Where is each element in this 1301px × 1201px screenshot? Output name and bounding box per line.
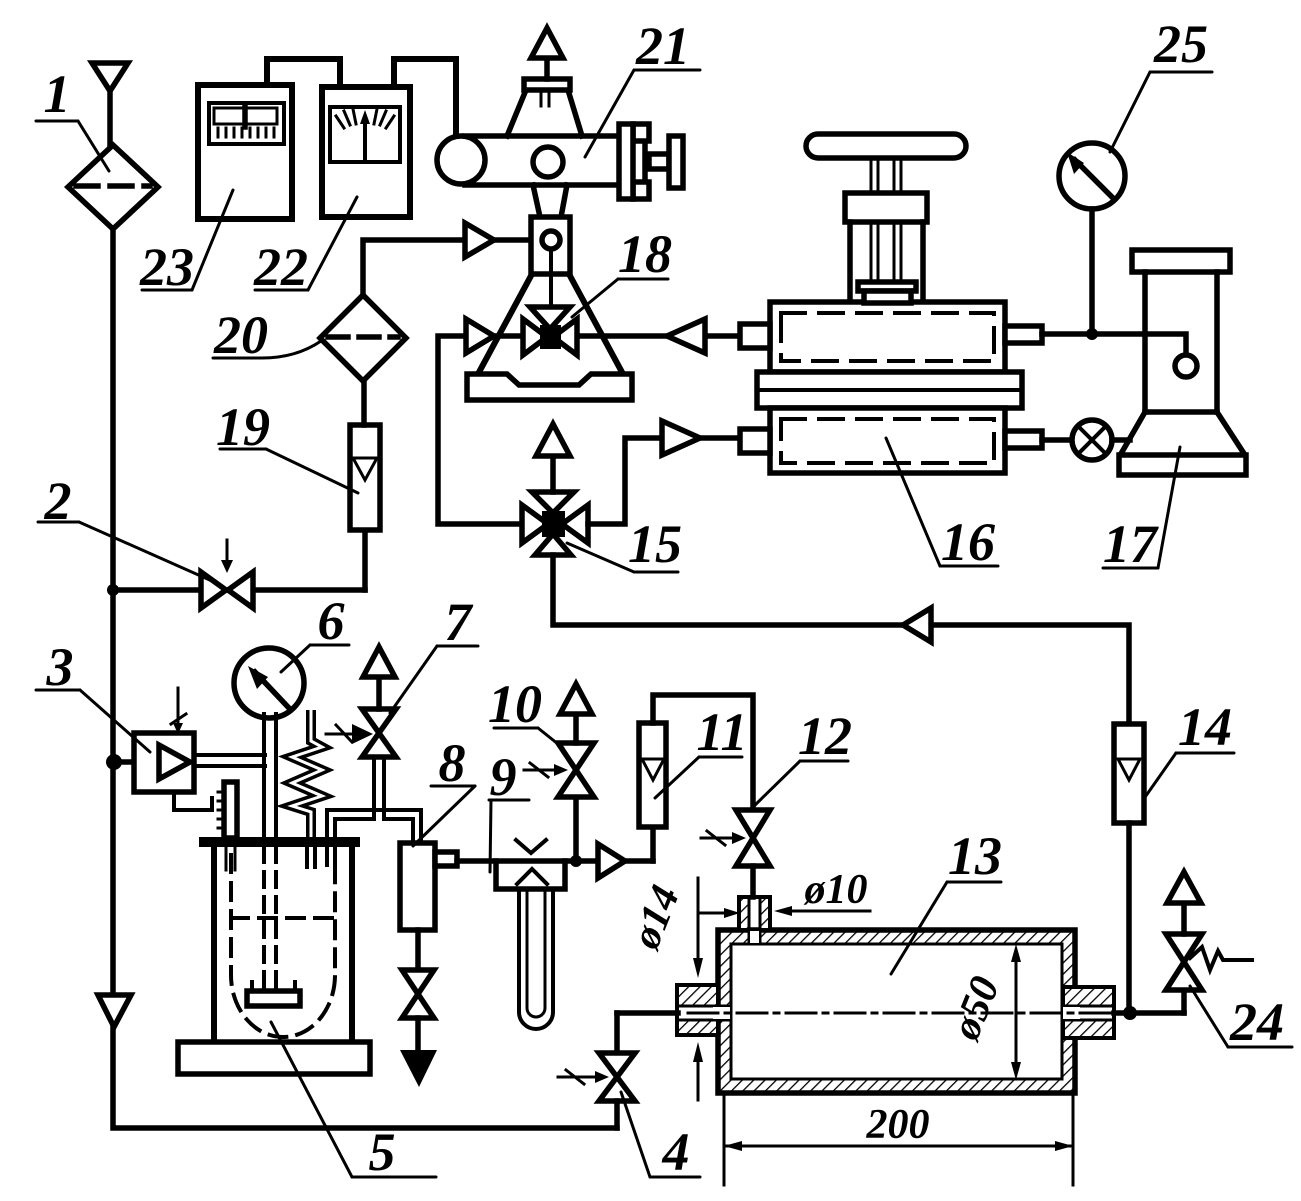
svg-text:21: 21	[635, 16, 690, 76]
wire rotameter19 to filter 20	[361, 381, 367, 425]
left boss	[677, 985, 718, 1006]
node junction at axis	[1123, 1006, 1137, 1020]
wire box22 to device 21	[394, 59, 456, 140]
port stub lower-right of 16	[1005, 431, 1042, 448]
wire valve12 to cylinder stub	[750, 866, 756, 897]
node junction gauge line	[1086, 328, 1098, 340]
svg-text:4: 4	[662, 1122, 690, 1182]
svg-text:17: 17	[1103, 514, 1159, 574]
drain arrow black	[400, 1050, 437, 1087]
instrument box 23	[198, 85, 292, 219]
pressure gauge 25	[1059, 143, 1125, 209]
vessel 5 walls	[211, 847, 217, 1042]
svg-text:9: 9	[490, 747, 517, 807]
device 21 right leg	[569, 274, 623, 374]
node main-valve2 junction	[107, 584, 119, 596]
dim phi14 arrows	[697, 878, 700, 962]
wire pivot to valve 18	[549, 249, 553, 307]
flow arrow right after thermowell	[598, 844, 625, 878]
device 21 left ball	[437, 136, 485, 184]
stirrer paddle	[247, 991, 300, 1006]
filter 1 (diamond)	[68, 145, 158, 229]
svg-text:24: 24	[1229, 992, 1284, 1052]
valve 10	[573, 797, 579, 861]
spring of valve 24	[1190, 947, 1252, 970]
valve 4	[614, 1013, 620, 1053]
svg-text:23: 23	[139, 237, 194, 297]
pressure gauge 6	[234, 648, 304, 718]
device 21 center circle	[533, 147, 563, 177]
thermostat 16 lower box	[770, 408, 1005, 473]
port stub upper-right of 16	[1005, 326, 1042, 343]
valve 7	[362, 709, 396, 733]
wire lower-right port of 16 to valve	[1042, 437, 1072, 443]
drain valve under 8	[415, 930, 421, 970]
vent stem + triangle above device 21	[544, 58, 550, 79]
bracket under box 3	[174, 792, 212, 810]
wire valve15 bottom long line to rotameter 14	[553, 555, 1129, 724]
svg-text:14: 14	[1178, 697, 1232, 757]
wire valve2 to rotameter 19	[362, 530, 368, 590]
stirrer shaft dashed	[262, 847, 266, 991]
device 21 cone	[507, 90, 526, 136]
svg-text:13: 13	[948, 826, 1002, 886]
thermowell 9 U-tube	[519, 889, 553, 1029]
svg-text:22: 22	[253, 237, 308, 297]
vent above valve 24	[1181, 903, 1187, 934]
inlet funnel	[92, 63, 128, 91]
relief valve 24	[1181, 990, 1187, 1013]
wire left boss to valve 4	[617, 1010, 678, 1016]
instrument box 22	[322, 87, 410, 217]
valve 2	[201, 572, 226, 608]
cylinder 13 right wall	[1062, 944, 1075, 1006]
device 17 sight circle	[1175, 355, 1197, 377]
svg-text:7: 7	[445, 592, 474, 652]
svg-text:18: 18	[618, 224, 672, 284]
device 21 base	[467, 374, 632, 400]
dim phi50 arrows	[1015, 958, 1018, 1066]
dim phi10 arrow	[788, 910, 870, 913]
svg-text:11: 11	[696, 702, 747, 762]
valve stem rods	[871, 158, 901, 282]
filter 20 (diamond)	[320, 295, 406, 381]
wire main to box 3	[113, 759, 136, 765]
vessel 5 base	[178, 1042, 370, 1074]
vent above valve 7	[376, 677, 382, 709]
svg-text:25: 25	[1153, 14, 1208, 74]
wire box3 to gauge tube	[194, 753, 265, 757]
valve bonnet on 16	[845, 193, 927, 222]
device 17 base plate	[1119, 455, 1246, 475]
wire right boss to relief valve 24	[1114, 1010, 1184, 1016]
valve 18 (three-way)	[523, 319, 547, 355]
cylinder 13 outline	[718, 930, 1075, 1093]
svg-text:200: 200	[866, 1102, 930, 1148]
port stub upper-left of 16	[740, 324, 770, 348]
device 17 cap	[1132, 250, 1230, 272]
thermostat 16 middle band	[757, 372, 1022, 408]
cylinder 13 bottom wall	[718, 1079, 1075, 1093]
wire item8 to thermowell 9	[457, 858, 653, 864]
device 21 neck	[533, 185, 540, 217]
svg-text:8: 8	[439, 733, 466, 793]
valve bottom plate on 16	[858, 282, 916, 291]
device 21 body	[465, 136, 645, 185]
vent above valve 10	[573, 714, 579, 743]
flow arrow left toward thermostat	[667, 319, 705, 353]
pipe header valve7 to vessel and item 8	[372, 757, 376, 819]
wire rotameter11 up over to valve 12	[653, 695, 753, 810]
svg-text:5: 5	[369, 1122, 396, 1182]
vessel 5 lid	[199, 837, 360, 847]
flow arrow right toward thermostat lower port	[662, 421, 700, 455]
top stub walls	[739, 897, 749, 930]
device 17 flare	[1122, 412, 1145, 452]
device 21 right bracket	[633, 124, 649, 141]
device 21 left leg	[478, 274, 532, 374]
thermostat 16 upper box	[770, 302, 1005, 372]
device 17 shoulder	[1145, 409, 1217, 415]
liquid level dashed	[231, 916, 335, 920]
wire upper-right port of 16 to device 17	[1042, 334, 1186, 355]
wire rotameter 14 down to axis	[1126, 823, 1132, 1013]
wire box23 to box22	[267, 59, 340, 87]
header drop below lid	[325, 847, 329, 865]
wire valve18 to thermostat upper port	[577, 333, 740, 339]
valve 12	[736, 810, 770, 838]
valve body sides on 16	[847, 222, 853, 300]
node valve10 stem junction	[570, 855, 582, 867]
manual arrow into box 3	[177, 688, 180, 726]
gauge 6 stem tube	[262, 714, 266, 838]
svg-text:3: 3	[46, 637, 74, 697]
svg-text:12: 12	[798, 706, 852, 766]
heater lead below lid	[305, 847, 309, 867]
svg-text:15: 15	[628, 514, 682, 574]
flow arrow left on long line	[903, 608, 931, 642]
handwheel of valve on 16	[806, 134, 966, 158]
wire valve15 right branch up to thermostat lower port	[588, 438, 740, 524]
right boss	[1063, 987, 1114, 1006]
sampler 8	[400, 843, 435, 930]
svg-text:1: 1	[44, 64, 71, 124]
thermometer in lid	[224, 782, 237, 838]
thermowell 9 block	[496, 861, 565, 889]
svg-text:6: 6	[318, 591, 345, 651]
node main-box3 junction	[106, 754, 122, 770]
wire circle-X valve to device 17 base	[1112, 437, 1130, 443]
regulator box 3	[134, 733, 194, 792]
vent above valve 15	[550, 456, 556, 492]
circle-X valve	[1072, 420, 1112, 460]
svg-text:ø10: ø10	[804, 867, 868, 913]
heater coil	[292, 710, 322, 838]
port stub lower-left of 16	[740, 429, 770, 453]
flow arrow right on line y240	[465, 223, 494, 257]
valve 15 (four-way)	[522, 505, 548, 543]
vessel 5 inner dashed shell	[231, 855, 335, 1037]
device 17 body	[1142, 272, 1148, 412]
svg-text:10: 10	[488, 674, 542, 734]
cylinder 13 top wall	[718, 930, 1075, 944]
wire filter20 up and right to stand column	[363, 240, 542, 295]
wire funnel stem	[107, 91, 113, 146]
rotameter 14	[1114, 724, 1144, 823]
device 21 column	[531, 217, 570, 274]
rotameter 19	[350, 425, 380, 530]
wire main left line	[113, 229, 617, 1128]
device 21 column pivot circle	[542, 231, 560, 249]
wire left branch of valve 18	[438, 336, 523, 524]
center axis dash-dot	[688, 1012, 1122, 1015]
svg-text:20: 20	[213, 305, 268, 365]
svg-text:16: 16	[941, 512, 995, 572]
flow arrow down on main line	[98, 995, 131, 1027]
flow arrow right on valve18 line	[466, 319, 494, 353]
cylinder 13 left wall	[718, 944, 731, 1006]
wire line to valve 2	[113, 587, 365, 593]
rotameter 11	[650, 827, 656, 861]
wire gauge 25 down to pipe	[1089, 209, 1095, 334]
device 21 knob	[649, 154, 669, 169]
